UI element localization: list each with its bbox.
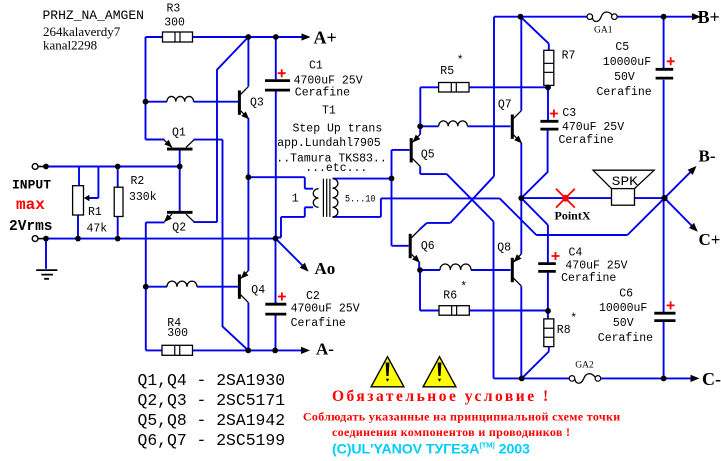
wire B+ node to R7 diagonal — [521, 17, 549, 51]
label R4 — [167, 317, 181, 330]
junction C4 / R8 / R6 — [545, 308, 551, 314]
arrow C+ — [689, 223, 698, 232]
wire Q2 collector up to A+ node — [194, 37, 249, 222]
wire L1 leads — [146, 101, 238, 103]
svg-text:10000uF: 10000uF — [603, 56, 651, 69]
wire T1 secondary top lead — [333, 178, 392, 180]
wire SPK to big junction — [635, 197, 665, 199]
wire A- rail R4 to arrow — [193, 349, 303, 351]
label T1 secondary 5...10 — [345, 193, 376, 205]
wire Q5/Q6 base column — [391, 150, 393, 246]
arrow B- — [688, 166, 697, 175]
label C4 — [569, 247, 583, 260]
wire Q6 base — [392, 245, 409, 247]
svg-text:C6: C6 — [619, 287, 633, 300]
T1 note line5 — [305, 162, 367, 175]
wire Q2 base — [179, 166, 181, 211]
value 300 (R4) — [167, 327, 188, 340]
transformer T1 core — [323, 179, 330, 217]
resistor R2 — [114, 187, 123, 216]
transistor Q4 (PNP) — [238, 271, 249, 303]
label R1 — [88, 206, 102, 219]
svg-text:Q5: Q5 — [421, 149, 435, 162]
svg-text:50V: 50V — [614, 71, 635, 84]
junction A- / C2 — [272, 348, 278, 354]
wire ground drop — [45, 239, 47, 269]
svg-text:R5: R5 — [440, 65, 454, 78]
inductor L2 (Q4 base) — [167, 281, 197, 287]
wire C+ diagonal — [665, 198, 694, 227]
arrow A+ — [302, 33, 311, 40]
wire Q1 collector to A- diag — [194, 140, 249, 351]
wire emitter rail to SPK — [521, 197, 611, 199]
junction Q6 emitter / R6 / L4 — [417, 267, 423, 273]
junction speaker big node — [661, 195, 667, 201]
label max — [16, 196, 45, 214]
transistor Q1 (PNP) — [164, 140, 194, 151]
label R7 — [562, 50, 576, 63]
wire L3 leads — [420, 125, 510, 127]
svg-text:Step Up trans: Step Up trans — [293, 122, 383, 135]
node PointX marker — [556, 189, 575, 208]
svg-text:R8: R8 — [557, 324, 571, 337]
svg-text:(C)UL'YANOV ТУГЕЗА(TM) 2003: (C)UL'YANOV ТУГЕЗА(TM) 2003 — [332, 441, 530, 458]
wire Q3 collector riser — [247, 37, 249, 86]
wire Q1 base to node — [179, 150, 181, 166]
label Q8 — [497, 241, 511, 254]
junction A+ / Q3 collector — [245, 34, 251, 40]
svg-text:10000uF: 10000uF — [599, 302, 647, 315]
svg-text:Cerafine: Cerafine — [561, 272, 616, 285]
svg-text:R7: R7 — [562, 50, 576, 63]
svg-text:...etc...: ...etc... — [305, 162, 367, 175]
svg-text:470uF 25V: 470uF 25V — [562, 121, 624, 134]
inductor L4 (Q8 base) — [440, 264, 471, 270]
svg-text:R2: R2 — [131, 175, 145, 188]
value C5 line1 — [603, 56, 651, 69]
label Q3 — [250, 97, 264, 110]
transistor Q7 (NPN) — [511, 111, 522, 144]
wire Q4 collector drop to A- — [247, 303, 249, 351]
transistor list line2 — [138, 391, 286, 410]
wire T1 secondary bottom lead to emitter-rail — [333, 198, 500, 217]
junction L1 left — [143, 99, 149, 105]
svg-text:C2: C2 — [306, 290, 320, 303]
wire R5 right lead — [469, 86, 548, 88]
svg-text:Q3: Q3 — [250, 97, 264, 110]
label Q2 — [172, 222, 186, 235]
wire Q7 collector riser — [520, 17, 522, 111]
wire Q5 emitter from node — [419, 126, 421, 134]
transistor Q3 (NPN) — [238, 87, 249, 120]
label C3 — [562, 107, 576, 120]
svg-text:GA2: GA2 — [575, 361, 594, 371]
svg-text:R3: R3 — [167, 3, 181, 16]
svg-text:Q1: Q1 — [172, 127, 186, 140]
wire junction to C6 top — [663, 198, 665, 312]
label C1 — [309, 59, 323, 72]
label R8 — [557, 324, 571, 337]
label PointX — [555, 209, 591, 223]
capacitor C6 — [654, 301, 675, 320]
label SPK — [612, 174, 638, 189]
transistor Q2 (NPN) — [164, 211, 194, 222]
svg-text:C5: C5 — [615, 41, 629, 54]
svg-text:2Vrms: 2Vrms — [9, 219, 53, 235]
T1 note line1 — [322, 105, 336, 118]
wire node to Q4 emitter — [247, 177, 249, 271]
junction R2 bottom — [115, 236, 121, 242]
label Ao — [315, 259, 336, 278]
junction B+ node — [518, 14, 524, 20]
junction Q1-Q2 base / input — [177, 164, 183, 170]
label B+ — [698, 7, 720, 27]
asterisk R8 — [570, 313, 577, 326]
svg-text:Cerafine: Cerafine — [598, 332, 653, 345]
capacitor C2 — [265, 293, 286, 315]
arrow B+ — [692, 13, 701, 20]
value C1 line1 — [294, 74, 363, 87]
label R3 — [167, 3, 181, 16]
svg-text:4700uF 25V: 4700uF 25V — [291, 303, 360, 316]
wire C6 bottom to C- rail — [663, 322, 665, 379]
warning red line1 — [332, 388, 551, 405]
capacitor C4 — [538, 252, 559, 271]
value 300 (R3) — [164, 17, 185, 30]
label Q4 — [251, 284, 265, 297]
input terminal top — [32, 164, 44, 170]
value C3 line1 — [562, 121, 624, 134]
svg-text:Cerafine: Cerafine — [597, 86, 652, 99]
svg-text:GA1: GA1 — [594, 26, 613, 36]
svg-text:C1: C1 — [309, 59, 323, 72]
wire L4 leads — [420, 269, 511, 271]
wire bypass to big junction — [500, 198, 665, 235]
wire Q6 emitter to node — [418, 262, 420, 270]
wire R8 bottom diagonal to C- node — [522, 347, 549, 379]
svg-text:Ao: Ao — [315, 259, 336, 278]
label R6 — [443, 290, 457, 303]
svg-text:1: 1 — [292, 193, 299, 206]
svg-text:SPK: SPK — [612, 174, 638, 189]
svg-text:Q6: Q6 — [421, 240, 435, 253]
wire T1 primary bottom lead — [276, 207, 314, 237]
transformer T1 primary winding — [313, 189, 318, 208]
wire R6 right lead — [469, 310, 548, 312]
label 2Vrms — [9, 219, 53, 235]
svg-text:R1: R1 — [88, 206, 102, 219]
svg-text:Cerafine: Cerafine — [291, 317, 346, 330]
junction T1 secondary / Q5-Q6 base — [389, 176, 395, 182]
svg-text:5...10: 5...10 — [345, 193, 376, 205]
wire T1 primary top lead — [248, 177, 313, 189]
value 47k (R1) — [87, 222, 108, 235]
svg-text:max: max — [16, 196, 45, 214]
svg-text:C-: C- — [702, 369, 721, 389]
warning red line2 — [303, 410, 621, 424]
transistor list line4 — [138, 431, 286, 450]
wire wiper riser — [88, 167, 98, 199]
copyright cyan line — [332, 441, 530, 458]
svg-text:PRHZ_NA_AMGEN: PRHZ_NA_AMGEN — [43, 8, 144, 23]
capacitor C5 — [656, 57, 675, 78]
wire Q5 collector to C- column — [420, 166, 522, 378]
wire C- rail — [522, 377, 691, 379]
junction L2 left — [143, 284, 149, 290]
resistor R3 — [163, 32, 193, 42]
label Q6 — [421, 240, 435, 253]
junction A+ / C1 — [273, 34, 279, 40]
svg-text:INPUT: INPUT — [12, 178, 51, 193]
label GA1 — [594, 26, 613, 36]
label Q1 — [172, 127, 186, 140]
label GA2 — [575, 361, 594, 371]
svg-text:соединения компонентов и прово: соединения компонентов и проводников ! — [332, 425, 570, 439]
wire Q3 emitter drop to node — [247, 118, 249, 177]
wire input bottom rail — [45, 238, 275, 240]
junction B+ rail / C5 — [661, 14, 667, 20]
wire R1 top stub — [78, 167, 80, 186]
wire Q8 collector drop to C- — [520, 286, 522, 378]
transistor list line1 — [138, 371, 286, 390]
resistor R7 — [544, 50, 554, 85]
junction input bottom — [43, 236, 49, 242]
label A- — [316, 340, 334, 359]
label Q7 — [498, 99, 512, 112]
resistor R6 — [439, 306, 469, 316]
wire R6 left lead — [420, 270, 439, 311]
title line 1 — [43, 8, 144, 23]
value C5 line3 — [597, 86, 652, 99]
svg-text:Q1,Q4 - 2SA1930: Q1,Q4 - 2SA1930 — [138, 371, 286, 390]
junction R2 top — [115, 164, 121, 170]
svg-text:50V: 50V — [613, 317, 634, 330]
label C- — [702, 369, 721, 389]
wire Ao arrow diagonal — [276, 238, 304, 266]
capacitor C1 — [265, 69, 290, 90]
transistor Q8 (PNP) — [511, 254, 522, 286]
wire R7 bottom to C3 top — [547, 85, 549, 120]
label C5 — [615, 41, 629, 54]
label R2 — [131, 175, 145, 188]
value C5 line2 — [614, 71, 635, 84]
transistor list line3 — [138, 411, 286, 430]
wire R5 left lead — [420, 87, 438, 126]
junction R1 bottom — [75, 236, 81, 242]
wire C5 connections — [663, 17, 665, 198]
svg-text:*: * — [457, 55, 464, 68]
transistor Q6 (NPN) — [409, 230, 420, 263]
value 330k (R2) — [129, 191, 157, 204]
svg-text:Q7: Q7 — [498, 99, 512, 112]
input terminal bottom — [32, 236, 44, 242]
label A+ — [314, 27, 337, 47]
inductor L3 (Q7 base) — [439, 121, 468, 126]
wire C1 verticals — [275, 37, 277, 238]
wire C3 bottom to emitter node — [521, 130, 547, 198]
wire A+ rail R3 to arrow — [193, 36, 304, 38]
wire R2 bottom stub — [117, 217, 119, 239]
svg-text:Cerafine: Cerafine — [295, 86, 350, 99]
junction Q5 emitter / R5 / L3 — [417, 123, 423, 129]
junction C- / R8 / Q8 — [519, 376, 525, 382]
wire Q7 emitter to rail node — [520, 143, 522, 198]
warning triangle 2 — [423, 357, 456, 387]
svg-text:Обязательное условие !: Обязательное условие ! — [332, 388, 551, 405]
arrow A- — [301, 347, 310, 354]
svg-text:A+: A+ — [314, 27, 337, 47]
inductor L1 (Q3 base) — [167, 96, 194, 101]
svg-text:Q2,Q3 - 2SC5171: Q2,Q3 - 2SC5171 — [138, 391, 286, 410]
value C3 line2 — [559, 134, 614, 147]
value C6 line3 — [598, 332, 653, 345]
svg-text:*: * — [570, 313, 577, 326]
svg-text:Q5,Q8 - 2SA1942: Q5,Q8 - 2SA1942 — [138, 411, 286, 430]
asterisk R5 — [457, 55, 464, 68]
wire B- diagonal — [665, 171, 693, 199]
wire input top rail — [45, 166, 179, 168]
svg-text:A-: A- — [316, 340, 334, 359]
wire Q5 base — [392, 149, 410, 151]
title line 2 — [43, 24, 121, 39]
title line 3 — [43, 38, 97, 53]
resistor R4 — [162, 345, 193, 355]
label C2 — [306, 290, 320, 303]
label C+ — [699, 230, 721, 249]
value C2 line1 — [291, 303, 360, 316]
label Q5 — [421, 149, 435, 162]
wire A+ rail left segment — [146, 36, 163, 38]
value C6 line1 — [599, 302, 647, 315]
warning red line3 — [332, 425, 570, 439]
ground — [36, 270, 57, 279]
label B- — [699, 147, 716, 166]
wire Ao node to C2 and A- — [275, 238, 277, 350]
wire B+ rail — [521, 16, 693, 18]
svg-text:R6: R6 — [443, 290, 457, 303]
svg-text:300: 300 — [167, 327, 188, 340]
junction Q3-Q4 emitter / T1 primary — [246, 174, 252, 180]
label C6 — [619, 287, 633, 300]
label R5 — [440, 65, 454, 78]
wire L2 leads — [146, 286, 238, 288]
svg-text:B+: B+ — [698, 7, 720, 27]
speaker SPK — [593, 170, 654, 205]
junction Ao node — [273, 236, 279, 242]
fuse GA1 — [587, 12, 617, 22]
resistor R8 — [544, 319, 554, 347]
T1 note line4 — [276, 153, 386, 166]
wire R2 top stub — [117, 167, 119, 188]
wire Q6 collector to B+ column — [419, 17, 520, 230]
wire Q8 emitter from node — [520, 198, 522, 254]
T1 note line2 — [293, 122, 383, 135]
label INPUT — [12, 178, 51, 193]
svg-text:Q6,Q7 - 2SC5199: Q6,Q7 - 2SC5199 — [138, 431, 286, 450]
junction A- / Q4 collector — [245, 348, 251, 354]
arrow C- — [691, 375, 700, 382]
transistor Q5 (PNP) — [410, 134, 421, 166]
svg-text:Q2: Q2 — [172, 222, 186, 235]
svg-text:kanal2298: kanal2298 — [43, 38, 97, 53]
T1 note line3 — [277, 137, 381, 150]
label T1 pin 1 — [292, 193, 299, 206]
value C4 line2 — [561, 272, 616, 285]
junction emitter rail node — [518, 195, 524, 201]
svg-text:C3: C3 — [562, 107, 576, 120]
svg-text:Cerafine: Cerafine — [559, 134, 614, 147]
svg-text:300: 300 — [164, 17, 185, 30]
svg-text:PointX: PointX — [555, 209, 591, 223]
wire Q2 emitter to left rail down to A- — [146, 222, 165, 350]
svg-text:470uF 25V: 470uF 25V — [565, 259, 627, 272]
asterisk R6 — [460, 281, 467, 294]
value C1 line2 — [295, 86, 350, 99]
wire left vertical rail (A+ to Q1 emitter) — [146, 37, 165, 140]
svg-text:T1: T1 — [322, 105, 336, 118]
svg-text:Q8: Q8 — [497, 241, 511, 254]
value C4 line1 — [565, 259, 627, 272]
svg-text:app.Lundahl7905: app.Lundahl7905 — [277, 137, 381, 150]
junction C6 / C- rail — [661, 376, 667, 382]
svg-text:*: * — [460, 281, 467, 294]
svg-text:330k: 330k — [129, 191, 157, 204]
junction input top — [43, 164, 49, 170]
svg-text:47k: 47k — [87, 222, 108, 235]
wire emitter node to C4 top — [521, 198, 548, 263]
wire C4 bottom to R8 — [547, 272, 549, 319]
potentiometer R1 — [73, 186, 90, 215]
resistor R5 — [439, 83, 469, 93]
warning triangle 1 — [371, 357, 404, 387]
wire R1 bottom stub — [77, 215, 79, 239]
svg-text:C+: C+ — [699, 230, 721, 249]
value C2 line2 — [291, 317, 346, 330]
svg-text:Q4: Q4 — [251, 284, 265, 297]
svg-text:C4: C4 — [569, 247, 583, 260]
transformer T1 secondary winding — [333, 179, 338, 217]
value C6 line2 — [613, 317, 634, 330]
capacitor C3 — [540, 110, 558, 130]
junction R7 / C3 — [545, 85, 551, 91]
svg-text:Соблюдать указанные на принцип: Соблюдать указанные на принципиальной сх… — [303, 410, 621, 424]
arrow Ao — [300, 263, 309, 272]
svg-text:B-: B- — [699, 147, 716, 166]
fuse GA2 — [569, 374, 601, 384]
